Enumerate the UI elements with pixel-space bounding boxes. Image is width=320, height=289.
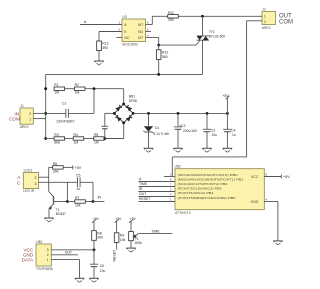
ground under R13 (94, 61, 103, 65)
junction IR node (92, 200, 95, 203)
svg-text:C1: C1 (62, 102, 66, 106)
resistor R7 (67, 196, 93, 207)
op-coupler U3 MOC3063 (119, 15, 150, 46)
svg-text:2: 2 (29, 112, 31, 116)
svg-text:R5: R5 (94, 133, 98, 137)
junction bridge left (113, 112, 116, 115)
wire U2 GND to ground (264, 202, 278, 241)
svg-text:(PCINT3/CLKI/ADC3) PB3: (PCINT3/CLKI/ADC3) PB3 (178, 187, 222, 191)
resistor R5 (94, 133, 105, 144)
ground under C2 (173, 148, 182, 152)
junction C2 top (177, 112, 180, 115)
ground under C6 (89, 278, 98, 282)
svg-text:NC: NC (124, 36, 130, 40)
ground under U2 GND (273, 241, 282, 245)
svg-text:5.1V 0.4W: 5.1V 0.4W (154, 132, 170, 136)
wire dc plus rail (133, 112, 227, 114)
junction bridge bottom (122, 121, 125, 124)
svg-text:J2: J2 (262, 7, 266, 11)
svg-text:C3: C3 (211, 128, 215, 132)
junction R2 right / C1 branch (93, 87, 96, 90)
capacitor C6 10u (90, 250, 106, 278)
mcu U2 ATTINY13 (170, 165, 268, 216)
svg-text:OUT: OUT (65, 251, 72, 255)
svg-text:VCC: VCC (251, 175, 259, 179)
svg-text:(MISO/AIN1/OC0B/INT0/PCINT1) P: (MISO/AIN1/OC0B/INT0/PCINT1) PB1 (178, 177, 245, 181)
svg-text:(SCK/ADC1/T0/PCINT2) PB2: (SCK/ADC1/T0/PCINT2) PB2 (178, 182, 228, 186)
svg-text:LCD1: LCD1 (24, 169, 33, 173)
wire R4 to R5 (84, 138, 94, 140)
svg-text:220nF/630V: 220nF/630V (57, 120, 76, 124)
svg-text:360: 360 (162, 55, 168, 59)
svg-text:R7: R7 (75, 196, 79, 200)
svg-text:(MOSI/AIN0/OC0A/PCINT0) PB0: (MOSI/AIN0/OC0A/PCINT0) PB0 (178, 173, 239, 177)
supply +5V at R8 (92, 217, 99, 222)
svg-text:1M: 1M (75, 91, 80, 95)
wire R6 down to T1 collector (49, 167, 53, 191)
svg-text:+C2: +C2 (180, 124, 186, 128)
wire R13 to ground (98, 51, 100, 61)
supply +5V on dc rail (222, 94, 229, 114)
svg-text:390: 390 (102, 46, 108, 50)
svg-text:C5: C5 (76, 174, 80, 178)
wire bridge left arm to snubber cap (105, 113, 115, 126)
svg-text:+5V: +5V (283, 175, 290, 179)
svg-text:R2: R2 (75, 83, 79, 87)
junction C3 top (206, 112, 209, 115)
potentiometer P1 200k (129, 221, 173, 248)
resistor R6 (53, 162, 64, 173)
svg-text:R1: R1 (54, 83, 58, 87)
resistor R8 (92, 221, 103, 250)
svg-text:NC: NC (138, 30, 144, 34)
wire net TIME to U2 (139, 182, 176, 186)
svg-text:(PCINT4/ADC2) PB4: (PCINT4/ADC2) PB4 (178, 191, 215, 195)
resistor R9 (114, 221, 125, 250)
svg-text:1: 1 (47, 258, 49, 262)
svg-text:3: 3 (35, 182, 37, 186)
svg-text:(PCINT5/RESET/ADC0/dW) PB5: (PCINT5/RESET/ADC0/dW) PB5 (178, 196, 237, 200)
wire C5 left lead (67, 181, 77, 183)
svg-text:R3: R3 (54, 133, 58, 137)
resistor R3 (54, 133, 65, 144)
triac TY1 BT131-600 (197, 16, 226, 74)
svg-text:2: 2 (47, 253, 49, 257)
ground under D1 (144, 148, 153, 152)
wire R5 to bridge bottom (104, 123, 123, 139)
svg-text:RESET: RESET (139, 197, 150, 201)
wire C1 row left (46, 112, 66, 114)
svg-text:COM: COM (279, 19, 293, 25)
wire U3 cathode to R13 (99, 32, 122, 42)
ground under T1 (44, 218, 53, 222)
svg-text:C: C (17, 181, 21, 187)
transistor T1 BC847 (49, 191, 68, 217)
junction bridge right (132, 112, 135, 115)
capacitor snubber (101, 126, 108, 128)
svg-text:MOC3063: MOC3063 (122, 42, 138, 46)
junction gate node (157, 44, 160, 47)
wire R6 to +5V flag (63, 166, 73, 168)
svg-text:R4: R4 (73, 133, 77, 137)
supply +5V at R6 (73, 165, 82, 169)
svg-text:TIME: TIME (151, 230, 160, 234)
svg-text:IR: IR (98, 195, 102, 199)
net label RESET vertical (112, 249, 116, 262)
wire U3 MT pin4 to gate node (146, 38, 159, 46)
resistor R12 (156, 50, 168, 60)
svg-text:TSOP4836: TSOP4836 (36, 267, 53, 271)
junction R12 bottom (157, 73, 160, 76)
ground under U1 pin1 (75, 278, 84, 282)
ground under C4 (223, 148, 232, 152)
svg-text:DATA: DATA (22, 257, 35, 262)
wire J2 pin2 down-left to U2 pin PB0 (172, 21, 262, 177)
svg-text:C4: C4 (231, 128, 235, 132)
svg-text:R12: R12 (162, 50, 168, 54)
resistor R11 (168, 11, 179, 22)
svg-text:BC847: BC847 (56, 212, 66, 216)
svg-text:J1: J1 (20, 104, 24, 108)
supply +5V at R9 (115, 217, 122, 222)
junction triac top (201, 15, 204, 18)
svg-text:TY1: TY1 (209, 30, 215, 34)
junction R8 C6 node (93, 248, 96, 251)
svg-text:R8: R8 (97, 231, 101, 235)
svg-text:10u: 10u (212, 133, 218, 137)
wire net OUT to U2 (139, 192, 176, 196)
pin stub J1 pin2 (33, 112, 45, 114)
wire LED cathode to C5 node (45, 182, 67, 201)
pin stub LCD1 cathode (39, 181, 46, 183)
svg-text:+5V: +5V (74, 166, 81, 170)
svg-text:ARK2: ARK2 (262, 26, 271, 30)
wire R3 to R4 (65, 138, 74, 140)
junction T1 base node (66, 200, 69, 203)
resistor R2 (74, 83, 85, 94)
svg-text:IR: IR (139, 187, 143, 191)
capacitor C1 220nF/630V (57, 102, 76, 124)
wire U1 pin3 to R8/C6 node (51, 249, 94, 251)
wire U1 pin2 OUT stub (51, 251, 78, 255)
wire C1 branch vertical (93, 89, 95, 114)
svg-text:U3: U3 (122, 15, 126, 19)
pin stub U2 PB0 (164, 176, 175, 178)
wire net A to U2 (139, 177, 176, 181)
wire net IR to U2 (139, 187, 176, 191)
pin stub LCD1 anode (39, 176, 49, 178)
svg-text:ATTINY13: ATTINY13 (175, 211, 191, 215)
connector J1 ARK2 (9, 104, 33, 129)
wire U2 VCC to +5V (264, 176, 281, 178)
junction left rail R3 row (44, 137, 47, 140)
junction snubber cap bottom (103, 137, 106, 140)
resistor R13 (97, 41, 109, 51)
svg-text:200k: 200k (135, 241, 143, 245)
wire U3 MT pin6 up to R11 line (146, 16, 168, 24)
photoreceiver U1 TSOP4836 (22, 240, 53, 271)
svg-text:10k: 10k (75, 203, 81, 207)
zener diode D1 5.1V (143, 113, 169, 148)
svg-text:10u: 10u (100, 269, 106, 273)
svg-text:390: 390 (168, 18, 174, 22)
ground under C3 (202, 148, 211, 152)
svg-text:6k8: 6k8 (54, 140, 60, 144)
supply +5V at U2 VCC (281, 175, 290, 179)
led LCD1 LED IR (17, 169, 39, 194)
svg-text:GND: GND (251, 200, 259, 204)
svg-text:DF08: DF08 (129, 99, 137, 103)
resistor R1 (54, 83, 65, 94)
svg-text:TIME: TIME (139, 182, 148, 186)
bridge rectifier BR1 DF08 (114, 94, 137, 123)
capacitor C4 1u (223, 113, 236, 148)
pin stub J1 pin1 (33, 118, 45, 120)
svg-text:RESET: RESET (112, 249, 116, 262)
pin stub J2 pin1 (256, 15, 262, 17)
svg-text:ARK2: ARK2 (20, 125, 29, 129)
pin stub U3 NC right (146, 31, 152, 33)
svg-text:3: 3 (47, 248, 49, 252)
wire net RESET to U2 (139, 197, 176, 201)
svg-text:10k: 10k (120, 238, 126, 242)
wire upper rail (triac MT1 return) (46, 73, 203, 75)
wire left rail vertical (45, 74, 47, 138)
svg-text:U$1: U$1 (36, 240, 42, 244)
svg-text:BT131-600: BT131-600 (209, 35, 225, 39)
svg-text:LED IR: LED IR (23, 189, 34, 193)
wire U1 pin1 to ground (51, 260, 79, 278)
svg-text:U$2: U$2 (175, 165, 181, 169)
svg-text:2: 2 (264, 20, 266, 24)
svg-text:2: 2 (35, 176, 37, 180)
wire left rail to R3 (46, 138, 54, 140)
svg-text:+5V: +5V (130, 217, 137, 221)
wire R12 to lower rail (158, 45, 160, 74)
wire snubber cap to R5 row (104, 129, 106, 139)
pin stub U3 NC left (117, 37, 123, 39)
resistor R4 (73, 133, 84, 144)
wire C1 to branch (68, 112, 94, 114)
svg-text:+5V: +5V (93, 217, 100, 221)
svg-text:COM: COM (9, 116, 20, 121)
wire C5 right lead down to IR node (80, 182, 93, 201)
wire R1 to R2 (65, 88, 75, 90)
junction bridge top (122, 103, 125, 106)
svg-text:R13: R13 (102, 42, 108, 46)
svg-text:MT: MT (138, 36, 144, 40)
svg-text:390: 390 (97, 236, 103, 240)
wire IR stub (93, 195, 104, 201)
svg-text:1: 1 (29, 118, 31, 122)
capacitor C5 1n (76, 174, 80, 191)
wire gate node to triac gate (159, 41, 200, 46)
capacitor C3 10u (203, 113, 217, 148)
svg-text:1u: 1u (232, 133, 236, 137)
junction left rail C1 row (44, 112, 47, 115)
capacitor C2 220u/16V (174, 113, 198, 148)
wire R2 to bridge top (85, 89, 124, 104)
svg-text:1M: 1M (94, 140, 99, 144)
svg-text:390: 390 (53, 169, 59, 173)
svg-text:D1: D1 (155, 126, 159, 130)
connector J2 ARK2 (262, 7, 293, 30)
supply +5V at P1 (129, 217, 136, 222)
junction D1 top (147, 112, 150, 115)
svg-text:OUT: OUT (139, 192, 146, 196)
junction left rail R1 row (44, 87, 47, 90)
svg-text:MT: MT (138, 23, 144, 27)
svg-text:1: 1 (264, 15, 266, 19)
svg-text:+5V: +5V (115, 217, 122, 221)
svg-text:1M: 1M (54, 91, 59, 95)
svg-text:C6: C6 (100, 264, 104, 268)
svg-text:1n: 1n (76, 187, 80, 191)
wire R11 to triac top and J2 pin1 (178, 15, 256, 17)
svg-text:BR1: BR1 (129, 94, 136, 98)
ground under P1 (126, 248, 135, 252)
svg-text:R9: R9 (120, 233, 124, 237)
svg-text:220u/16V: 220u/16V (183, 129, 198, 133)
svg-text:R6: R6 (53, 162, 57, 166)
wire net A to U3 pin A (80, 20, 122, 25)
svg-text:1M: 1M (73, 140, 78, 144)
svg-text:R11: R11 (168, 11, 174, 15)
junction C4 top (226, 112, 229, 115)
